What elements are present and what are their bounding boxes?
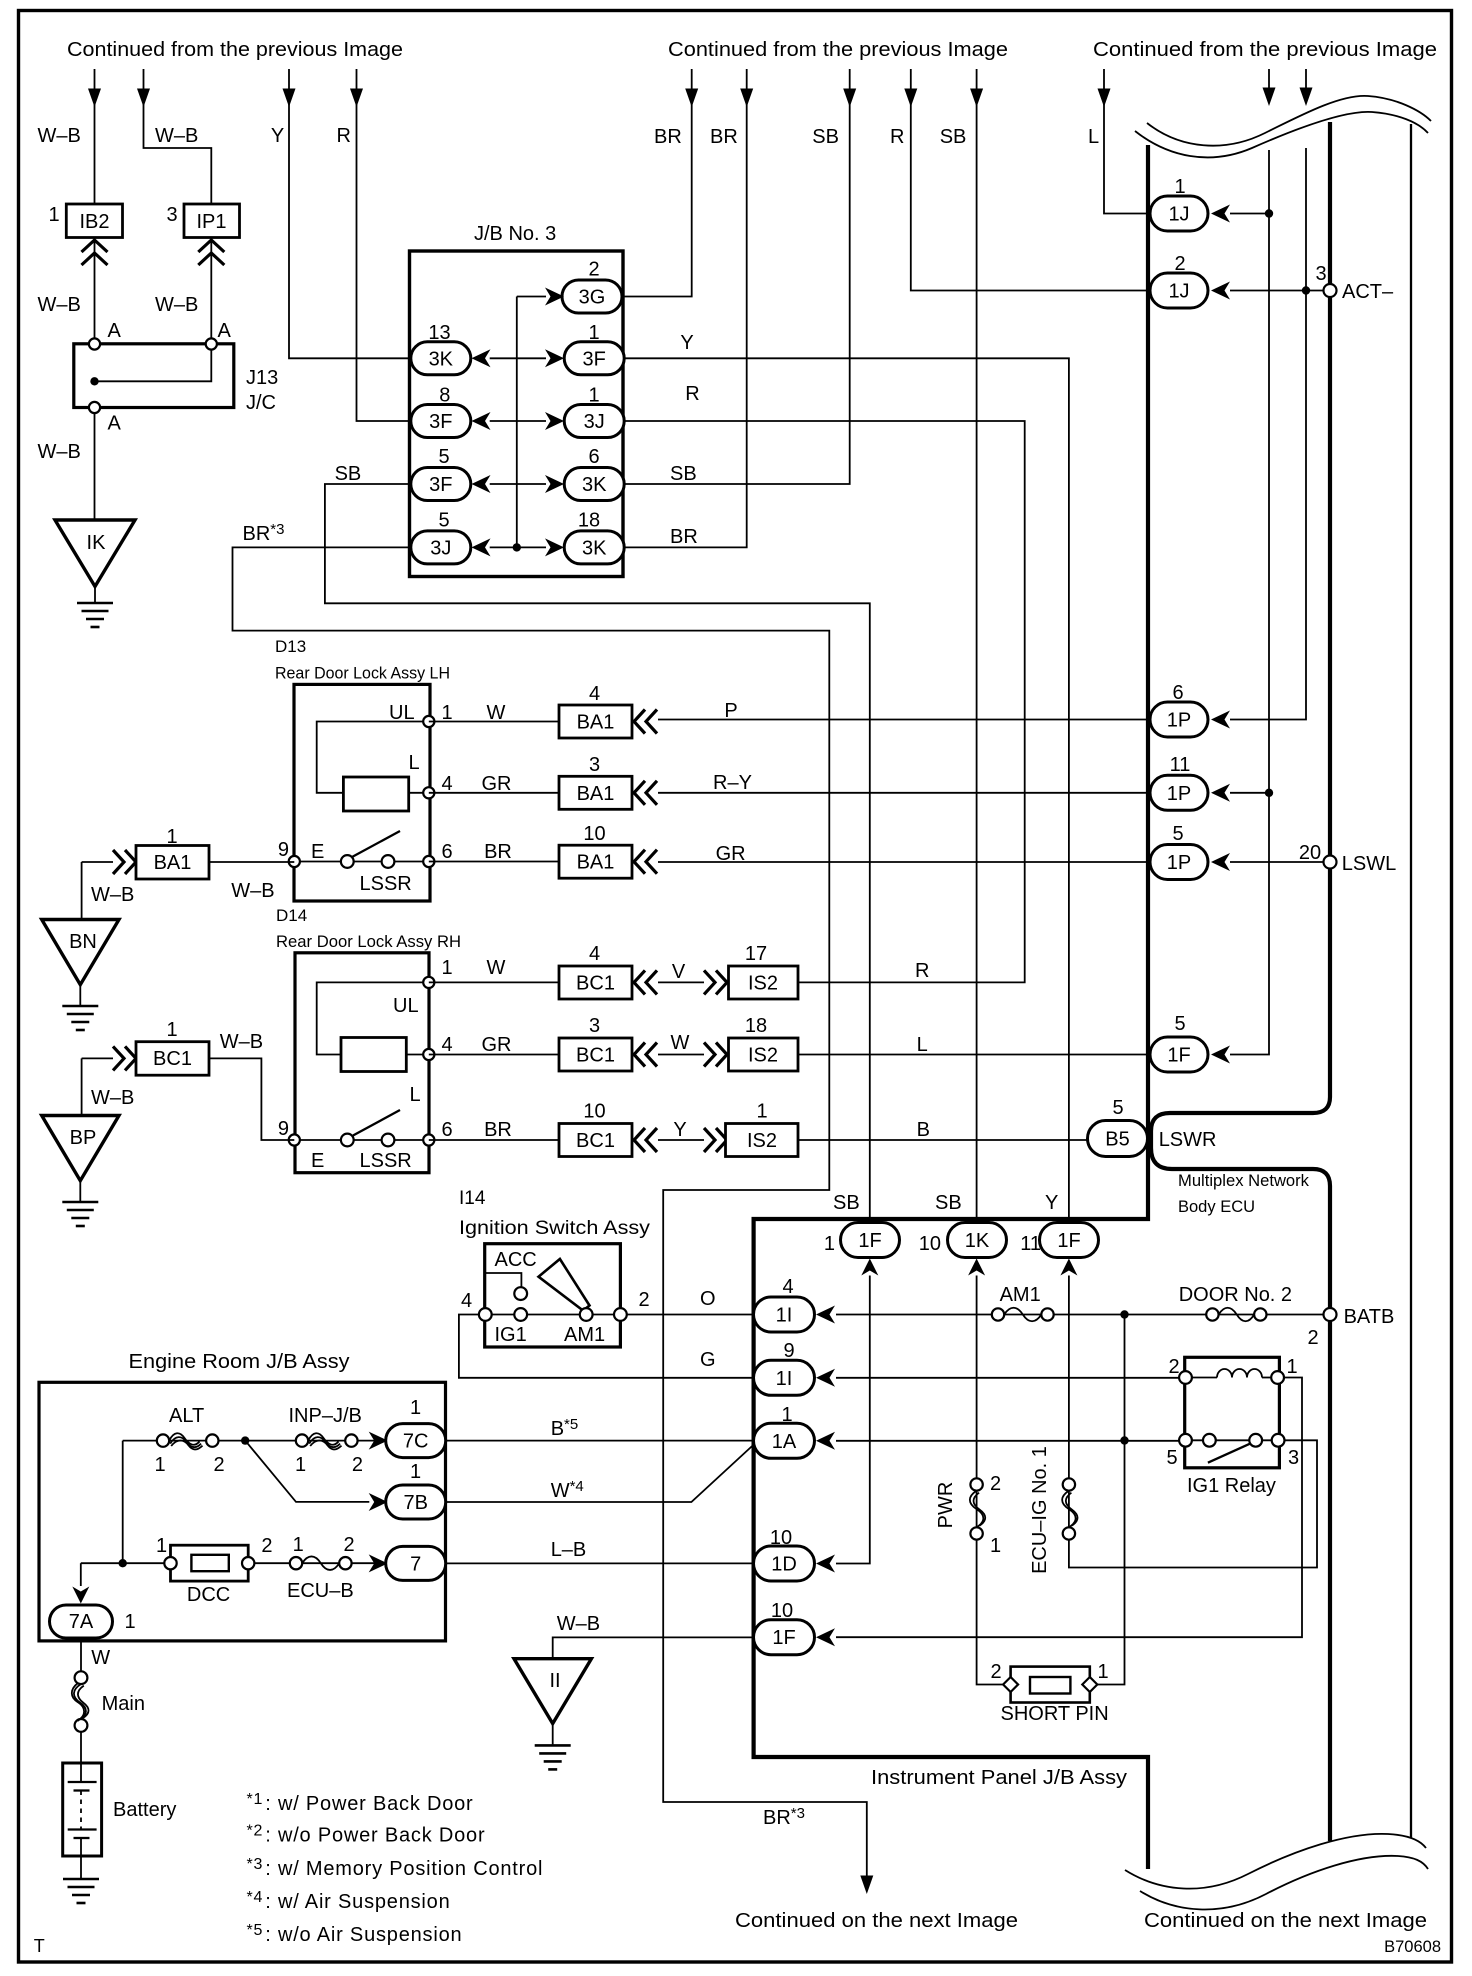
arrow into 7C [369, 1432, 388, 1450]
arrow into 1D pin10 [816, 1555, 835, 1573]
wire: L from IS2 pin18 to 1F pin5 [798, 1054, 1150, 1056]
connector IP1 pin 3 [184, 204, 240, 238]
fuse AM1 [992, 1308, 1004, 1320]
svg-text:3K: 3K [429, 348, 454, 370]
wire: relay coil pin1 to 1F pin10 loop [836, 1378, 1302, 1638]
node A (right) [206, 338, 217, 349]
svg-text:11: 11 [1020, 1233, 1041, 1255]
fuse INP-J/B [296, 1434, 308, 1446]
svg-text:5: 5 [1166, 1447, 1177, 1469]
wire: internal feed to 3G from junction [517, 296, 546, 298]
svg-text:LSWR: LSWR [1159, 1129, 1217, 1151]
svg-text:2: 2 [261, 1535, 272, 1557]
svg-text:D13: D13 [275, 637, 306, 656]
svg-text:1K: 1K [965, 1230, 990, 1252]
wire: BR from top down to 3G [624, 69, 692, 297]
svg-text:II: II [549, 1670, 560, 1692]
wire: 1P pin11 junction stub [1230, 792, 1269, 794]
chevron at BA1 pin3 [634, 781, 657, 805]
arrow up into 1F pin1 [861, 1259, 878, 1276]
junction J13 J/C box [74, 344, 234, 408]
svg-text:UL: UL [393, 995, 419, 1017]
svg-text:Y: Y [673, 1119, 686, 1141]
connector BA1 pin 1 [136, 846, 209, 880]
wire: internal row 3F-3J [490, 420, 546, 422]
svg-text:Body ECU: Body ECU [1178, 1198, 1255, 1216]
wire: short-pin riser [1097, 1315, 1125, 1685]
svg-text:1F: 1F [858, 1230, 881, 1252]
ground symbol under BP [62, 1202, 98, 1226]
wire: down to BP triangle [81, 1058, 83, 1115]
wire: GR from BA1 pin10 to 1P pin5 [658, 861, 1150, 863]
svg-text:10: 10 [770, 1527, 792, 1549]
svg-text:1P: 1P [1167, 783, 1191, 805]
wire: pin4 to IG1 and AM1 to pin2 [485, 1314, 620, 1316]
svg-text:GR: GR [716, 843, 746, 865]
svg-text:3F: 3F [583, 348, 606, 370]
wire: D13 pin1 W to BA1 pin4 [429, 721, 559, 723]
chevron at BC1 pin3 [634, 1043, 657, 1067]
arrow into 7B [369, 1493, 388, 1511]
pin 9 circle (D14) [289, 1134, 300, 1145]
svg-text:3J: 3J [430, 537, 451, 559]
chevron under IP1 [198, 240, 224, 265]
ground symbol under battery [63, 1879, 99, 1903]
wire: D13 internal pin1 to motor [317, 722, 429, 793]
svg-text:Main: Main [102, 1693, 145, 1715]
svg-text:BA1: BA1 [577, 712, 615, 734]
wavy break (bottom right) [1125, 1834, 1428, 1910]
connector 1I pin 4 [754, 1297, 815, 1332]
connector 1P pin 5 [1150, 845, 1208, 880]
svg-text:SB: SB [935, 1192, 962, 1214]
terminal 3K pin 13 [411, 342, 471, 375]
svg-text:3: 3 [589, 1015, 600, 1037]
svg-text:5: 5 [438, 446, 449, 468]
wire: internal row 3K-3F [490, 357, 546, 359]
fuse DCC (fusible link box) [171, 1545, 249, 1581]
svg-text:BR: BR [654, 126, 682, 148]
arrow on SB wire 1 [843, 89, 856, 108]
arrow up into 1F pin11 [1060, 1259, 1077, 1276]
svg-text:IS2: IS2 [748, 1045, 778, 1067]
svg-text:10: 10 [771, 1600, 793, 1622]
arrow into 1I pin4 [816, 1306, 835, 1324]
svg-text:4: 4 [589, 683, 600, 705]
svg-text:6: 6 [441, 1119, 452, 1141]
fuse PWR [970, 1478, 982, 1490]
svg-text:IB2: IB2 [79, 211, 109, 233]
svg-text:5: 5 [1112, 1097, 1123, 1119]
wire: SB from top down to 3K pin6 [624, 69, 850, 484]
svg-text:9: 9 [278, 1118, 289, 1140]
svg-text:6: 6 [441, 841, 452, 863]
svg-text:BA1: BA1 [577, 852, 615, 874]
ground triangle BN [42, 920, 119, 985]
wire: L-B from 7 to 1D pin10 [446, 1562, 754, 1564]
svg-text:Multiplex Network: Multiplex Network [1178, 1172, 1310, 1190]
wire: 1P pin5 to LSWL [1230, 861, 1324, 863]
svg-text:W–B: W–B [220, 1031, 263, 1053]
wire: D14 pin6 BR to BC1 pin10 [429, 1139, 559, 1141]
wire: D13 pin6 BR to BA1 pin10 [429, 861, 559, 863]
arrow into 1F pin5 [1211, 1046, 1230, 1064]
connector 7C pin 1 [386, 1424, 446, 1458]
svg-text:18: 18 [578, 510, 600, 532]
wire: DCC row [81, 1562, 386, 1564]
wire: 1F pin11 down through ECU-IG No.1 fuse to relay pin3 [1069, 1276, 1317, 1568]
node ACT- pin 3 [1324, 284, 1337, 297]
wire: ALT riser [122, 1441, 124, 1564]
svg-text:DOOR No. 2: DOOR No. 2 [1179, 1284, 1292, 1306]
svg-text:10: 10 [919, 1233, 941, 1255]
svg-text:LSSR: LSSR [360, 873, 412, 895]
svg-text:J13: J13 [246, 367, 278, 389]
connector BA1 pin 10 [559, 845, 632, 878]
svg-text:J/B No. 3: J/B No. 3 [474, 223, 556, 245]
svg-text:3: 3 [166, 204, 177, 226]
connector IS2 pin 18 [729, 1038, 799, 1071]
svg-text:1F: 1F [772, 1627, 795, 1649]
svg-text:R: R [890, 126, 904, 148]
arrow up into 1K pin10 [968, 1259, 985, 1276]
wire: ALT row inside engine J/B [123, 1440, 386, 1442]
wire: IP1 to J/C junction A [210, 238, 212, 339]
svg-text:7: 7 [410, 1553, 421, 1575]
switch contact circles (D13) [341, 855, 354, 868]
wire: W-B from II triangle to 1F pin10 [553, 1637, 754, 1657]
pin 1 circle (D14) [423, 977, 434, 988]
junction dot on 1A/relay row [1120, 1436, 1128, 1444]
svg-text:BR*3: BR*3 [243, 521, 285, 545]
svg-text:1F: 1F [1057, 1230, 1080, 1252]
terminal 3K pin 6 [564, 468, 624, 501]
svg-text:Continued from the previous Im: Continued from the previous Image [1093, 39, 1437, 61]
fuse ALT [157, 1434, 169, 1446]
svg-text:SB: SB [940, 126, 967, 148]
wire: internal vertical to BR junction [516, 297, 518, 548]
terminal 3J pin 5 (row E) [411, 531, 471, 564]
arrow on second W-B wire [137, 89, 150, 108]
connector IS2 pin 17 [729, 966, 799, 999]
svg-text:GR: GR [482, 773, 512, 795]
Instrument Panel J/B boundary (thick polyline) [754, 145, 1148, 1869]
fuse DOOR No. 2 [1206, 1308, 1218, 1320]
junction dot on 1J pin2 wire [1302, 286, 1310, 294]
arrow into 1J pin2 [1211, 282, 1230, 300]
wire: BC1 pin1 to D14 pin9 [209, 1058, 294, 1140]
wire: ground riser to BC1 pin1 [82, 1057, 113, 1059]
wire: 7A to Main fuse [80, 1638, 82, 1672]
fuse ECU-IG No. 1 [1063, 1478, 1075, 1490]
svg-text:3K: 3K [582, 537, 607, 559]
arrow on W-B wire [88, 89, 101, 108]
svg-text:BR*3: BR*3 [763, 1805, 805, 1829]
box SHORT PIN [1011, 1667, 1090, 1703]
svg-text:LSWL: LSWL [1342, 853, 1396, 875]
svg-text:BC1: BC1 [576, 1130, 615, 1152]
wire: IB2 to J/C junction A [94, 238, 96, 339]
svg-text:IK: IK [87, 532, 107, 554]
svg-text:BA1: BA1 [577, 783, 615, 805]
wire: down to BN triangle [81, 862, 83, 919]
svg-text:BN: BN [69, 931, 97, 953]
wire: battery to ground [80, 1856, 82, 1878]
wire: pass-through wire 2 down to 1P pin6 row [1230, 148, 1306, 720]
connector IB2 pin 1 [66, 204, 122, 238]
svg-text:7A: 7A [69, 1611, 94, 1633]
pin 6 circle (D14) [423, 1134, 434, 1145]
chevron into IS2 pin17 [704, 970, 727, 994]
svg-text:E: E [311, 1150, 324, 1172]
connector BC1 pin 10 [559, 1124, 632, 1157]
wire: L from top to connector 1J pin 1 [1104, 69, 1150, 214]
connector BC1 pin 4 [559, 966, 632, 999]
svg-text:BR: BR [484, 1119, 512, 1141]
svg-text:A: A [108, 320, 122, 342]
svg-text:INP–J/B: INP–J/B [289, 1405, 362, 1427]
wire: from pass-through wire down to 1F pin5 row [1230, 150, 1269, 1055]
switch contact circles (D14) [341, 1134, 354, 1147]
arrow into 1A pin1 [816, 1432, 835, 1450]
svg-text:3: 3 [1315, 263, 1326, 285]
svg-text:1F: 1F [1167, 1045, 1190, 1067]
connector IS2 pin 1 [726, 1124, 799, 1157]
svg-text:R–Y: R–Y [713, 772, 752, 794]
svg-text:SB: SB [335, 463, 362, 485]
svg-text:ECU–B: ECU–B [287, 1580, 354, 1602]
relay coil pin 1 [1271, 1371, 1284, 1384]
wire: O from ignition pin2 to 1I pin4 and on to BATB [627, 1314, 1324, 1316]
arrow into 3K pin6 [545, 475, 564, 493]
relay coil pin 2 [1179, 1371, 1192, 1384]
box Ignition Switch Assy I14 [485, 1244, 621, 1347]
svg-text:ACT–: ACT– [1342, 281, 1394, 303]
relay coil wire [1192, 1377, 1217, 1379]
wire: R from top into J/B No.3 3F row [357, 69, 411, 421]
relay switch contacts [1203, 1434, 1216, 1447]
svg-text:4: 4 [782, 1276, 793, 1298]
connector 7A pin 1 [50, 1605, 113, 1638]
svg-text:SB: SB [812, 126, 839, 148]
relay pin 5 [1179, 1434, 1192, 1447]
svg-text:D14: D14 [276, 906, 307, 925]
svg-text:W–B: W–B [155, 125, 198, 147]
svg-text:SB: SB [670, 463, 697, 485]
svg-text:4: 4 [461, 1290, 472, 1312]
svg-text:IP1: IP1 [196, 211, 226, 233]
svg-text:W–B: W–B [38, 294, 81, 316]
terminal 3K pin 18 [564, 531, 624, 564]
svg-text:W–B: W–B [38, 441, 81, 463]
svg-text:IS2: IS2 [747, 1130, 777, 1152]
svg-text:1J: 1J [1168, 204, 1189, 226]
svg-text:DCC: DCC [187, 1584, 230, 1606]
contact IG1 [514, 1308, 527, 1321]
wire: Main fuse to battery [80, 1732, 82, 1763]
wire: motor to pin 4 (D14) [406, 1054, 428, 1056]
short pin element [1030, 1677, 1070, 1694]
pin 6 circle (D13) [423, 856, 434, 867]
pin 9 circle (D13) [289, 856, 300, 867]
terminal 3F pin 8 [411, 405, 471, 438]
connector 1I pin 9 [754, 1360, 815, 1395]
svg-text:Y: Y [1045, 1192, 1058, 1214]
svg-text:3: 3 [1288, 1447, 1299, 1469]
box Engine Room J/B Assy [39, 1382, 446, 1641]
svg-text:1: 1 [1174, 176, 1185, 198]
wire: P from BA1 pin4 to 1P pin6 [658, 719, 1150, 721]
svg-text:BATB: BATB [1344, 1306, 1395, 1328]
svg-text:BP: BP [70, 1127, 97, 1149]
connector 1F pin 11 (ECU) [1040, 1223, 1099, 1258]
svg-text:LSSR: LSSR [360, 1150, 412, 1172]
node A (bottom) [89, 402, 100, 413]
svg-text:IG1: IG1 [495, 1324, 527, 1346]
arrow into 1F pin10 [816, 1628, 835, 1646]
svg-text:L: L [917, 1034, 928, 1056]
svg-text:ALT: ALT [169, 1405, 204, 1427]
terminal 3G pin 2 [562, 280, 622, 313]
svg-text:3: 3 [589, 754, 600, 776]
svg-text:SHORT PIN: SHORT PIN [1001, 1703, 1109, 1725]
wire: SB from top down to ECU connector 1K [976, 69, 978, 1223]
junction dot at short-pin riser (AM1 row) [1120, 1310, 1128, 1318]
lead of pass-through arrow 1 [1268, 69, 1270, 89]
chevron into IS2 pin1 [704, 1128, 727, 1152]
connector 1P pin 6 [1150, 702, 1208, 737]
svg-text:Ignition Switch Assy: Ignition Switch Assy [459, 1218, 651, 1239]
svg-text:1: 1 [295, 1454, 306, 1476]
svg-text:P: P [724, 700, 737, 722]
door lock motor (D14) [341, 1038, 406, 1072]
svg-text:1: 1 [166, 1019, 177, 1041]
wire: 1J pin1 to junction [1230, 213, 1269, 215]
svg-text:Continued on the next Image: Continued on the next Image [1144, 1910, 1427, 1932]
terminal 3J pin 1 (row C) [564, 405, 624, 438]
svg-text:G: G [700, 1349, 716, 1371]
svg-text:*1: w/ Power Back Door: *1: w/ Power Back Door [247, 1791, 474, 1815]
svg-text:W: W [671, 1032, 690, 1054]
pin 1 circle (D13) [423, 716, 434, 727]
svg-text:7C: 7C [403, 1431, 429, 1453]
wire: B from IS2 pin1 to B5 [798, 1139, 1088, 1141]
svg-text:GR: GR [482, 1034, 512, 1056]
ground triangle II [514, 1659, 591, 1724]
node BATB pin 2 [1324, 1308, 1337, 1321]
svg-text:B5: B5 [1105, 1129, 1129, 1151]
connector 1P pin 11 [1150, 775, 1208, 810]
svg-text:BR: BR [710, 126, 738, 148]
wire: D14 pin4 GR to BC1 pin3 [429, 1054, 559, 1056]
lead of pass-through arrow 2 [1305, 69, 1307, 89]
wire: diagonal to 7B [245, 1441, 369, 1502]
svg-text:Continued from the previous Im: Continued from the previous Image [67, 39, 403, 61]
svg-text:3F: 3F [429, 411, 452, 433]
wire: W-B into 3 IP1 from top [144, 69, 212, 204]
wire inside J/C [95, 350, 212, 382]
wire: V between BC1 and IS2 [658, 981, 704, 983]
svg-text:2: 2 [990, 1661, 1001, 1683]
svg-text:1: 1 [293, 1534, 304, 1556]
svg-text:1P: 1P [1167, 852, 1191, 874]
svg-text:1P: 1P [1167, 710, 1191, 732]
door lock motor (D13) [343, 777, 408, 811]
svg-text:2: 2 [1307, 1327, 1318, 1349]
wire: drop to 7A [80, 1563, 82, 1586]
svg-text:*5: w/o Air Suspension: *5: w/o Air Suspension [247, 1922, 463, 1946]
box D13 [294, 684, 430, 901]
wire: BR*3 path from 3J pin5 around to bottom arrow [233, 547, 867, 1867]
arrow into 1P pin5 [1211, 853, 1230, 871]
svg-text:1: 1 [166, 826, 177, 848]
svg-text:W: W [487, 957, 506, 979]
contact AM1 [580, 1308, 593, 1321]
wire: ground riser to BA1 pin1 [82, 861, 113, 863]
arrow into 3J row E [472, 538, 491, 556]
svg-text:B70608: B70608 [1384, 1938, 1441, 1956]
connector 1F pin 5 [1150, 1037, 1208, 1072]
fuse Main (fusible link) [75, 1671, 88, 1684]
svg-text:B: B [917, 1119, 930, 1141]
svg-text:UL: UL [389, 702, 415, 724]
connector B5 pin 5 (LSWR) [1088, 1121, 1148, 1157]
svg-text:Rear Door Lock Assy RH: Rear Door Lock Assy RH [276, 932, 461, 951]
box IG1 Relay [1185, 1357, 1280, 1468]
connector 1K pin 10 (ECU) [948, 1223, 1007, 1258]
svg-text:L–B: L–B [551, 1539, 587, 1561]
chevron into IS2 pin18 [704, 1043, 727, 1067]
wire: BR from top down to 3K pin18 [624, 69, 747, 547]
svg-text:L: L [1088, 126, 1099, 148]
wire: internal row 3J-3K [490, 546, 546, 548]
arrow into 7 [369, 1554, 388, 1572]
arrow BR*3 continued on next image [860, 1876, 873, 1895]
arrow into 3J row C [545, 412, 564, 430]
terminal 3F pin 1 (row B) [564, 342, 624, 375]
svg-text:ACC: ACC [495, 1249, 537, 1271]
junction dot on 3J-3K row [513, 543, 521, 551]
svg-text:SB: SB [833, 1192, 860, 1214]
svg-text:11: 11 [1170, 754, 1191, 776]
connector BC1 pin 3 [559, 1038, 632, 1071]
box J/B No.3 [410, 251, 624, 577]
arrow into 3F row B [545, 349, 564, 367]
connector 1F pin 10 [754, 1620, 815, 1655]
chevron at BC1 pin10 [634, 1128, 657, 1152]
svg-text:8: 8 [439, 385, 450, 407]
wire: Y output from 3F row B to ECU connector 1F pin11 [624, 358, 1069, 1223]
ground symbol under IK [77, 603, 113, 627]
short pin terminal 1 (diamond) [1082, 1677, 1097, 1692]
svg-text:R: R [685, 383, 699, 405]
svg-text:1: 1 [410, 1397, 421, 1419]
wire: W-B into 1 IB2 from top [94, 69, 96, 204]
svg-text:1I: 1I [776, 1305, 793, 1327]
svg-text:Battery: Battery [113, 1799, 176, 1821]
svg-text:5: 5 [1174, 1013, 1185, 1035]
chevron at BC1 pin4 [634, 970, 657, 994]
svg-text:1: 1 [756, 1101, 767, 1123]
wire: R output from 3J row C to IS2 pin17 row [624, 421, 1025, 982]
svg-text:BR: BR [670, 526, 698, 548]
wire: B*5 from 7C to 1A pin1 [446, 1440, 754, 1442]
connector 7B pin 1 [386, 1485, 446, 1519]
svg-text:1A: 1A [772, 1431, 797, 1453]
wire: II apex to ground [552, 1724, 554, 1745]
svg-text:1: 1 [990, 1535, 1001, 1557]
svg-text:2: 2 [638, 1289, 649, 1311]
